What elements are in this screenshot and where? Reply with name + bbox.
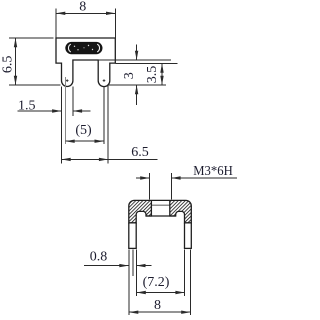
svg-text:(7.2): (7.2) (143, 275, 170, 290)
svg-text:6.5: 6.5 (131, 145, 149, 160)
svg-text:8: 8 (154, 298, 161, 313)
svg-text:6.5: 6.5 (1, 56, 16, 74)
svg-text:0.8: 0.8 (90, 250, 108, 265)
svg-text:1.5: 1.5 (18, 98, 36, 113)
svg-text:3: 3 (122, 72, 137, 79)
svg-text:M3*6H: M3*6H (193, 164, 233, 179)
svg-text:8: 8 (79, 0, 86, 14)
svg-text:3.5: 3.5 (145, 66, 160, 84)
svg-text:(5): (5) (75, 123, 92, 138)
